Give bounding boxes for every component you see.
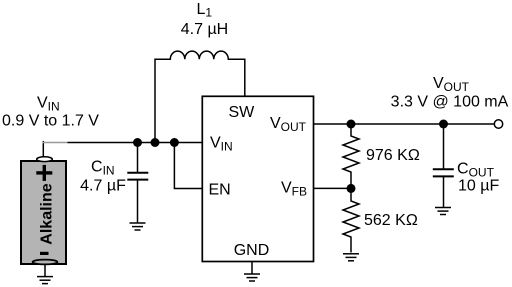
ground battery	[37, 264, 53, 284]
node junction dot VOUT-R1	[347, 120, 356, 129]
node junction dot VFB	[347, 184, 356, 193]
node junction dot 2	[151, 138, 160, 147]
battery BT1 Alkaline cell	[21, 157, 66, 265]
svg-text:Alkaline: Alkaline	[39, 183, 56, 244]
svg-text:4.7 µH: 4.7 µH	[181, 21, 228, 38]
wire VFB	[314, 187, 352, 189]
svg-text:976 KΩ: 976 KΩ	[366, 147, 420, 164]
label CIN value	[80, 159, 126, 195]
label L1 value	[181, 1, 228, 38]
label COUT value	[457, 161, 499, 195]
terminal VOUT open circle	[494, 120, 502, 128]
ground R2	[343, 254, 359, 261]
svg-text:0.9 V to 1.7 V: 0.9 V to 1.7 V	[2, 113, 99, 130]
capacitor COUT	[433, 124, 454, 207]
wire VOUT rail	[314, 123, 495, 125]
svg-text:GND: GND	[234, 242, 270, 259]
svg-text:3.3 V @ 100 mA: 3.3 V @ 100 mA	[391, 94, 509, 111]
node junction dot VOUT-COUT	[439, 120, 448, 129]
resistor R2 562K	[343, 188, 418, 252]
wire battery positive to input node (gray segment)	[43, 141, 68, 157]
resistor R1 976K	[343, 124, 420, 188]
svg-text:SW: SW	[229, 104, 256, 121]
op-amp U1 boost converter IC	[202, 96, 313, 261]
node junction dot 3	[170, 138, 179, 147]
node VIN label	[2, 95, 99, 130]
ground COUT	[435, 208, 451, 215]
svg-text:EN: EN	[209, 182, 231, 199]
node junction dot 1	[133, 138, 142, 147]
svg-text:562 KΩ: 562 KΩ	[364, 212, 418, 229]
capacitor CIN	[127, 143, 148, 223]
inductor L1	[155, 51, 245, 142]
wire input rail to VIN pin	[68, 142, 203, 144]
ground GND pin	[244, 262, 260, 282]
svg-text:4.7 µF: 4.7 µF	[80, 178, 126, 195]
node VOUT label	[391, 75, 509, 111]
ground CIN	[130, 223, 146, 230]
svg-text:10 µF: 10 µF	[458, 178, 499, 195]
wire EN branch	[174, 143, 202, 189]
